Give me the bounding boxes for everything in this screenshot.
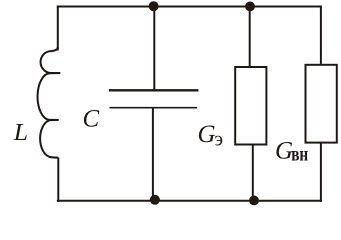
capacitor C bottom lead wire (152, 108, 154, 201)
wire right vertical upper segment (320, 6, 322, 65)
node junction dot top-right (245, 2, 255, 12)
inductor L (38, 47, 61, 158)
svg-text:C: C (83, 106, 100, 133)
wire right vertical lower segment (320, 143, 322, 202)
capacitor C top lead wire (153, 7, 155, 91)
svg-text:G: G (198, 121, 216, 148)
wire left vertical upper segment (57, 6, 59, 51)
node junction dot bottom-left (150, 195, 160, 205)
wire top horizontal (57, 6, 322, 8)
resistor G_vn body (306, 65, 337, 143)
capacitor C bottom plate (110, 107, 198, 109)
svg-text:вн: вн (291, 143, 308, 165)
resistor G_e body (235, 67, 266, 145)
svg-text:э: э (215, 128, 224, 150)
resistor G_e top lead wire (249, 7, 251, 68)
resistor G_e bottom lead wire (252, 145, 254, 201)
wire bottom horizontal (57, 200, 322, 202)
svg-text:L: L (13, 120, 28, 146)
capacitor C top plate (109, 89, 198, 91)
node junction dot top-left (149, 1, 159, 11)
wire left vertical lower segment (57, 158, 59, 202)
node junction dot bottom-right (249, 196, 259, 206)
